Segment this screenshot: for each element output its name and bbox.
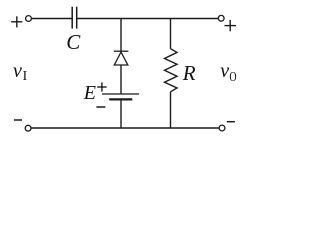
- svg-text:R: R: [182, 61, 196, 85]
- svg-text:E: E: [83, 82, 96, 104]
- wire: resistor bottom to bottom rail: [170, 92, 172, 128]
- wire: top rail, capacitor to diode node: [77, 18, 121, 20]
- wire: diode branch, top rail down to diode cathode: [120, 19, 122, 52]
- bottom-left - polarity sign: [14, 119, 22, 121]
- diode (cathode bar + triangle, pointing up): [114, 51, 129, 65]
- capacitor C: [72, 7, 77, 29]
- svg-text:I: I: [23, 68, 28, 83]
- svg-text:C: C: [66, 30, 81, 54]
- battery + sign: [97, 82, 106, 91]
- wire: battery bottom plate down to bottom rail: [120, 99, 122, 128]
- input terminal top-left: [26, 16, 32, 22]
- svg-text:v: v: [13, 60, 22, 82]
- wire: top rail, diode node to resistor node: [121, 18, 171, 20]
- wire: diode anode down to battery top plate: [120, 65, 122, 94]
- bottom-right - polarity sign: [227, 121, 235, 123]
- battery - sign: [96, 106, 105, 108]
- resistor R zigzag: [165, 49, 178, 92]
- top-right + polarity sign: [225, 20, 236, 31]
- output terminal top-right: [218, 15, 224, 21]
- wire: top rail, terminal to capacitor: [32, 18, 72, 20]
- input terminal bottom-left: [25, 125, 31, 131]
- bottom rail wire: [31, 127, 219, 129]
- svg-text:v: v: [220, 60, 229, 82]
- output terminal bottom-right: [219, 125, 225, 131]
- svg-text:O: O: [229, 69, 236, 84]
- top-left + polarity sign: [11, 16, 22, 27]
- battery E plates: [102, 94, 139, 99]
- wire: resistor branch, top rail down to zigzag: [170, 19, 172, 49]
- wire: top rail, resistor node to output terminal: [171, 18, 219, 20]
